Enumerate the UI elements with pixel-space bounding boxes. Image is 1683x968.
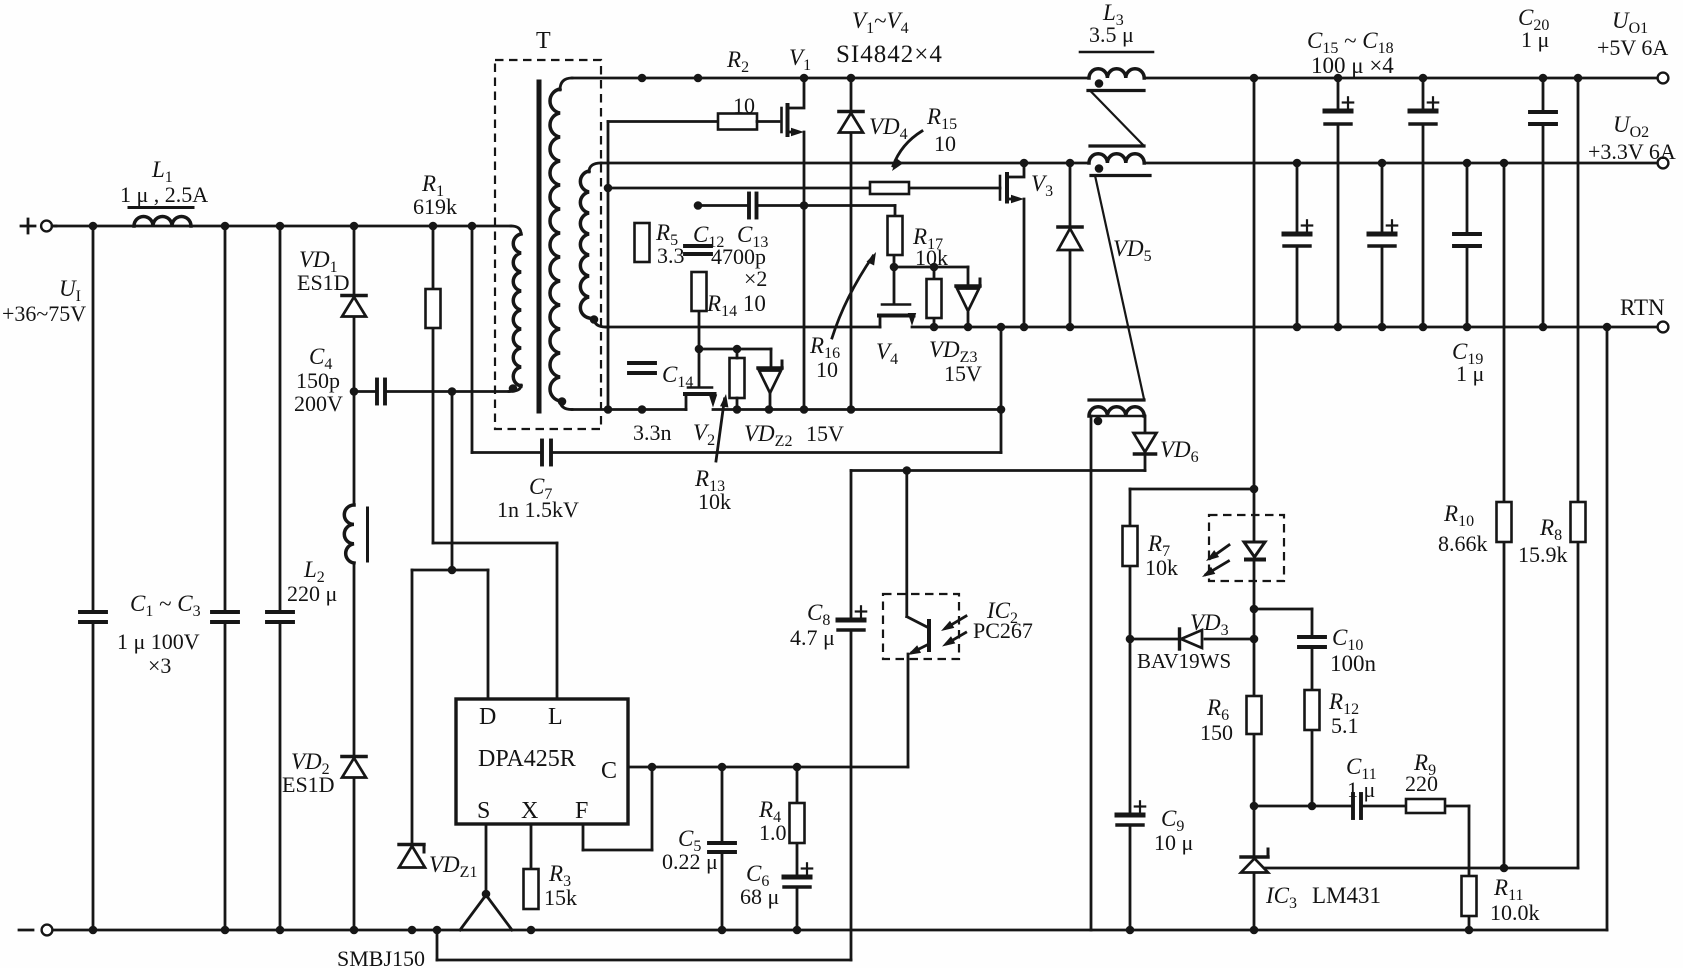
- wire RTN rail: [594, 318, 1657, 327]
- svg-text:4.7 μ: 4.7 μ: [790, 625, 835, 650]
- wire C5 branch: [721, 767, 724, 930]
- capacitor C3: [267, 612, 293, 622]
- wire R10 branch: [1503, 163, 1506, 868]
- terminal RTN: [1620, 295, 1668, 332]
- svg-text:10: 10: [816, 357, 838, 382]
- capacitor C15: [1325, 97, 1353, 124]
- label C1~C3: [117, 591, 201, 678]
- resistor R14: [692, 272, 766, 320]
- svg-text:1 μ: 1 μ: [1521, 27, 1549, 52]
- svg-text:D: D: [479, 704, 496, 730]
- svg-text:VD5: VD5: [1113, 236, 1152, 265]
- wire R8 branch: [1577, 78, 1580, 868]
- wire C17 branch: [1422, 78, 1425, 327]
- wire C15 branch: [1337, 78, 1340, 327]
- coupled inductor L3 winding 1: [1080, 0, 1153, 146]
- capacitor C5: [662, 826, 735, 874]
- wire R17 branch: [933, 267, 936, 327]
- svg-text:3.3: 3.3: [657, 243, 685, 268]
- capacitor C11: [1346, 754, 1377, 818]
- svg-text:150p: 150p: [296, 368, 340, 393]
- junction dots +3.3V rail: [1020, 159, 1509, 168]
- coupled inductor L3 winding 3: [1089, 400, 1145, 425]
- wire top +5V rail: [560, 78, 1657, 90]
- resistor R1: [413, 171, 457, 328]
- resistor R4: [758, 797, 805, 845]
- capacitor C18: [1369, 220, 1397, 246]
- transformer T primary winding: [509, 234, 521, 393]
- wire bottom input rail: [52, 929, 1607, 932]
- wire RTN to bottom rail: [1606, 327, 1609, 930]
- wire RTN to secondary return: [1000, 327, 1003, 453]
- svg-text:VDZ1: VDZ1: [429, 852, 477, 881]
- wire C19 branch: [1466, 163, 1469, 327]
- svg-text:5.1: 5.1: [1331, 713, 1359, 738]
- svg-text:R2: R2: [726, 47, 749, 76]
- wire R16 branch: [894, 206, 895, 268]
- capacitor C12: [685, 222, 724, 254]
- zener diode VDZ3: [929, 279, 982, 386]
- wire bias row (VD6 output): [851, 469, 1145, 472]
- svg-text:15V: 15V: [806, 421, 844, 446]
- wire LM431 cathode row: [1254, 806, 1469, 876]
- svg-text:V4: V4: [876, 339, 898, 368]
- shunt regulator IC3 LM431: [1241, 849, 1381, 912]
- resistor R3: [524, 861, 578, 910]
- resistor R6: [1200, 695, 1262, 745]
- transformer T core: [537, 82, 542, 411]
- mosfet V1: [782, 45, 812, 136]
- capacitor C6: [740, 861, 812, 909]
- svg-text:T: T: [536, 28, 551, 54]
- junction dots C4 row: [350, 387, 457, 396]
- resistor R9: [1405, 750, 1445, 813]
- wire F pin loop: [583, 767, 652, 850]
- terminal UO2 +3.3V: [1588, 112, 1676, 168]
- wire X pin lead: [530, 824, 533, 869]
- wire input + rail: [52, 226, 521, 234]
- svg-text:619k: 619k: [413, 194, 457, 219]
- wire R1 to L pin: [433, 328, 557, 699]
- capacitor C1: [80, 612, 106, 622]
- diode VD1: [297, 247, 366, 317]
- mosfet V2: [685, 349, 717, 410]
- svg-text:10k: 10k: [1145, 555, 1178, 580]
- junction dot bias row: [903, 466, 912, 475]
- svg-text:RTN: RTN: [1620, 295, 1665, 320]
- svg-text:10k: 10k: [915, 245, 948, 270]
- svg-text:UO1: UO1: [1612, 8, 1648, 37]
- svg-text:150: 150: [1200, 720, 1233, 745]
- wire L3 aux winding left lead: [1090, 416, 1093, 930]
- svg-text:+5V 6A: +5V 6A: [1597, 35, 1668, 60]
- label V1~V4 SI4842x4: [836, 8, 943, 68]
- wire C9 branch: [1129, 639, 1132, 930]
- svg-text:V3: V3: [1031, 171, 1053, 200]
- svg-text:V1~V4: V1~V4: [852, 8, 909, 37]
- diode VD2: [282, 749, 366, 797]
- diode VD5: [1058, 227, 1152, 265]
- junction dots +5V rail: [638, 74, 1583, 83]
- svg-text:VD4: VD4: [869, 114, 908, 143]
- svg-text:10 μ: 10 μ: [1154, 830, 1193, 855]
- zener diode VDZ2: [744, 361, 844, 450]
- mosfet V3: [1000, 163, 1053, 203]
- wire R15 row: [608, 187, 1000, 190]
- resistor R5: [635, 220, 685, 268]
- resistor R15: [870, 104, 957, 194]
- wire +3.3V rail: [589, 163, 1657, 172]
- svg-text:+3.3V 6A: +3.3V 6A: [1588, 139, 1676, 164]
- wire C2 branch: [224, 226, 227, 930]
- svg-text:68 μ: 68 μ: [740, 884, 779, 909]
- resistor R17: [912, 224, 948, 318]
- svg-text:100n: 100n: [1330, 651, 1377, 676]
- diode VD4: [839, 112, 908, 144]
- svg-text:LM431: LM431: [1312, 883, 1381, 908]
- svg-text:VD3: VD3: [1190, 610, 1229, 639]
- svg-text:+36~75V: +36~75V: [2, 301, 86, 326]
- wire R7 branch: [1130, 489, 1254, 639]
- svg-text:V2: V2: [693, 420, 715, 449]
- svg-text:15k: 15k: [544, 885, 577, 910]
- resistor R8: [1518, 502, 1586, 567]
- junction dot D row: [448, 566, 457, 575]
- capacitor C10: [1299, 625, 1377, 676]
- wire VD5 branch: [1069, 163, 1072, 327]
- wire C7 bridge row: [472, 226, 1001, 453]
- junction dot gate node: [604, 184, 613, 193]
- junction dots bottom rail: [89, 926, 1474, 935]
- transformer T dashed box: [495, 28, 601, 429]
- svg-text:1 μ: 1 μ: [1347, 777, 1375, 802]
- resistor R13: [694, 349, 745, 514]
- wire C10 row: [1254, 609, 1312, 637]
- svg-text:8.66k: 8.66k: [1438, 531, 1488, 556]
- svg-text:PC267: PC267: [973, 618, 1033, 643]
- svg-text:1.0: 1.0: [759, 820, 787, 845]
- resistor R10: [1438, 501, 1512, 556]
- wire +5V feedback chain: [1253, 78, 1256, 930]
- label UI: [2, 276, 86, 326]
- svg-text:×2: ×2: [744, 266, 767, 291]
- svg-text:DPA425R: DPA425R: [478, 746, 576, 772]
- svg-text:X: X: [521, 798, 538, 824]
- svg-text:10.0k: 10.0k: [1490, 900, 1540, 925]
- wire R11 lead: [1468, 916, 1471, 930]
- wire VD4 branch: [850, 78, 853, 410]
- diode VD3: [1137, 610, 1231, 673]
- terminal - input: [19, 925, 52, 936]
- wire C3 branch: [279, 226, 282, 930]
- junction dots input rail: [89, 222, 477, 231]
- resistor R12: [1305, 689, 1360, 738]
- svg-text:F: F: [575, 798, 588, 824]
- svg-text:10: 10: [733, 93, 755, 118]
- svg-text:1 μ: 1 μ: [1456, 361, 1484, 386]
- svg-text:15V: 15V: [944, 361, 982, 386]
- resistor R2: [718, 47, 779, 130]
- capacitor C7: [497, 441, 579, 523]
- inductor L2: [287, 505, 368, 606]
- transformer T secondary winding 1: [550, 89, 566, 406]
- resistor R16: [809, 216, 903, 382]
- ic DPA425R box: [456, 699, 628, 824]
- resistor R7: [1123, 526, 1179, 580]
- wire VD6 lead: [1144, 416, 1147, 471]
- capacitor C17: [1410, 97, 1438, 124]
- zener diode VDZ1: [399, 845, 477, 882]
- terminal UO1 +5V: [1597, 8, 1668, 83]
- wire R1 top lead: [432, 226, 435, 289]
- wire V1 source: [803, 132, 806, 410]
- optocoupler IC2 transistor: [883, 594, 1033, 659]
- resistor R11: [1462, 875, 1540, 925]
- capacitor C4: [294, 344, 385, 416]
- wire C18 branch: [1381, 163, 1384, 327]
- wire R12 link: [1311, 647, 1314, 806]
- diode VD6: [1134, 433, 1199, 466]
- svg-text:0.22 μ: 0.22 μ: [662, 849, 718, 874]
- optocoupler IC2 LED: [1202, 515, 1284, 581]
- capacitor C20: [1518, 5, 1556, 124]
- wire C1 branch: [92, 226, 95, 930]
- wire V3 source: [1023, 199, 1026, 327]
- wire secondary-1 return rail: [560, 400, 1001, 410]
- wire gate-drive node (R2/R15 feed): [607, 122, 610, 410]
- svg-text:C1 ~ C3: C1 ~ C3: [130, 591, 201, 620]
- svg-text:R14 10: R14 10: [706, 291, 766, 320]
- wire reference row: [1262, 867, 1578, 870]
- svg-text:ES1D: ES1D: [282, 772, 335, 797]
- wire R14 junction row: [699, 311, 771, 366]
- TVS diode SMBJ150: [337, 890, 512, 968]
- svg-text:220: 220: [1405, 771, 1438, 796]
- svg-text:VDZ2: VDZ2: [744, 421, 792, 450]
- junction dot C pin row: [648, 763, 802, 772]
- svg-text:UO2: UO2: [1613, 112, 1649, 141]
- wire R2 row: [608, 120, 718, 123]
- junction dots R13 row: [695, 345, 742, 354]
- wire C20 branch: [1542, 78, 1545, 327]
- svg-text:BAV19WS: BAV19WS: [1137, 649, 1231, 673]
- junction dots C13 row: [694, 201, 809, 210]
- capacitor C19: [1452, 234, 1484, 386]
- capacitor C2: [212, 612, 238, 622]
- svg-text:100 μ ×4: 100 μ ×4: [1311, 53, 1394, 78]
- wire R17/VDZ3 top row: [894, 267, 968, 284]
- svg-text:R8: R8: [1539, 515, 1562, 544]
- wire V4 gate lead: [893, 267, 896, 303]
- svg-text:S: S: [477, 798, 490, 824]
- label C15~C18: [1307, 28, 1394, 78]
- junction dots secondary return rail: [604, 405, 1006, 414]
- svg-text:L: L: [548, 704, 563, 730]
- inductor L1: [120, 157, 208, 226]
- junction dots R17 row: [890, 263, 939, 272]
- svg-text:VD6: VD6: [1160, 437, 1199, 466]
- wire C8 branch: [437, 471, 851, 961]
- terminal + input: [21, 219, 56, 233]
- wire S pin lead: [485, 824, 488, 894]
- svg-text:1 μ 100V: 1 μ 100V: [117, 629, 200, 654]
- svg-text:220 μ: 220 μ: [287, 581, 337, 606]
- svg-text:SMBJ150: SMBJ150: [337, 946, 425, 968]
- svg-text:R10: R10: [1443, 501, 1474, 530]
- svg-text:C10: C10: [1332, 625, 1363, 654]
- junction dots feedback chain: [1126, 485, 1509, 873]
- capacitor C16: [1284, 220, 1312, 246]
- svg-text:×3: ×3: [148, 653, 171, 678]
- coupled inductor L3 winding 2: [1089, 154, 1150, 399]
- svg-text:1 μ , 2.5A: 1 μ , 2.5A: [120, 182, 208, 207]
- svg-text:10k: 10k: [698, 489, 731, 514]
- wire drain row to D pin: [412, 392, 488, 846]
- wire C4 snubber row: [354, 385, 521, 392]
- svg-text:3.3n: 3.3n: [633, 420, 672, 445]
- capacitor C9: [1117, 801, 1193, 855]
- wire C13 row: [698, 204, 895, 207]
- svg-text:V1: V1: [789, 45, 811, 74]
- wire opto emitter: [907, 654, 910, 767]
- wire opto collector: [905, 471, 908, 617]
- svg-text:10: 10: [934, 131, 956, 156]
- capacitor C13: [711, 194, 768, 292]
- junction dots RTN rail: [930, 323, 1612, 332]
- capacitor C8: [790, 600, 866, 650]
- wire C control pin row: [628, 766, 908, 769]
- mosfet V4: [876, 305, 916, 369]
- wire C16 branch: [1296, 163, 1299, 327]
- transformer T secondary winding 2: [580, 171, 598, 324]
- svg-text:200V: 200V: [294, 391, 343, 416]
- capacitor C14: [629, 362, 693, 391]
- wire VD1/L2/VD2 branch: [353, 226, 356, 930]
- svg-text:IC3: IC3: [1265, 883, 1297, 912]
- svg-text:R15: R15: [926, 104, 957, 133]
- svg-text:ES1D: ES1D: [297, 270, 350, 295]
- svg-text:SI4842×4: SI4842×4: [836, 41, 943, 68]
- svg-text:1n 1.5kV: 1n 1.5kV: [497, 497, 579, 522]
- svg-text:3.5 μ: 3.5 μ: [1089, 22, 1134, 47]
- label 3.3n V2: [633, 420, 715, 449]
- svg-text:C: C: [601, 758, 617, 784]
- wire VD3 row: [1130, 638, 1254, 641]
- wire R4/C6 branch: [796, 767, 799, 930]
- svg-text:15.9k: 15.9k: [1518, 542, 1568, 567]
- wire VDZ3 lead: [967, 313, 970, 327]
